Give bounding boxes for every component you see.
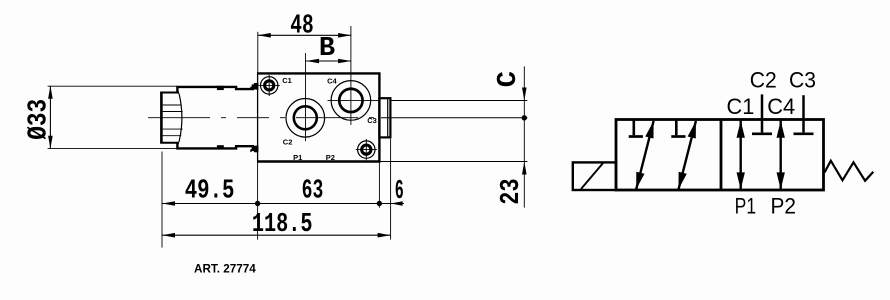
flow arrow 1 (left cell, slanted): [636, 121, 653, 189]
return spring: [825, 161, 874, 181]
extension lines: [48, 26, 528, 248]
main centerline axis: [148, 117, 381, 119]
dimension B: [306, 34, 351, 64]
svg-text:6: 6: [395, 177, 404, 207]
flow arrow C4-P2 (right cell): [777, 121, 785, 190]
coil retaining nub bottom: [250, 145, 258, 152]
svg-text:C1: C1: [282, 76, 292, 85]
svg-text:C3: C3: [789, 67, 816, 92]
dimension 48: [258, 11, 351, 41]
valve body block: [258, 73, 380, 161]
svg-text:C4: C4: [767, 94, 795, 119]
svg-text:P1: P1: [293, 153, 302, 162]
valve envelope: [616, 120, 824, 191]
bolt hole C1: [259, 75, 280, 96]
dimension C / 23: [494, 71, 527, 205]
svg-text:Ø33: Ø33: [25, 99, 55, 140]
svg-text:C1: C1: [727, 94, 755, 119]
svg-text:C: C: [494, 71, 524, 87]
solenoid coil body bottom profile: [177, 142, 257, 150]
svg-text:C2: C2: [283, 137, 293, 146]
svg-text:P2: P2: [326, 153, 335, 162]
coil retaining nub top: [250, 83, 258, 90]
position divider: [720, 120, 723, 191]
svg-text:ART. 27774: ART. 27774: [194, 263, 256, 276]
svg-text:48: 48: [290, 11, 313, 41]
solenoid symbol: [573, 162, 616, 190]
svg-text:P1: P1: [735, 193, 757, 218]
dimension Ø33: [25, 86, 55, 149]
flow arrow 2 (left cell, slanted): [679, 121, 696, 189]
svg-text:P2: P2: [770, 193, 796, 218]
blocked port C3 (right cell): [794, 95, 814, 134]
coil seal bump top: [217, 86, 224, 90]
side cartridge tab: [379, 98, 390, 137]
svg-text:C3: C3: [367, 116, 377, 125]
flow arrow C1-P1 (right cell): [737, 121, 745, 190]
svg-text:23: 23: [497, 178, 527, 204]
svg-text:C2: C2: [750, 67, 777, 92]
svg-text:C4: C4: [327, 77, 337, 86]
solenoid coil cap (nut end): [160, 92, 182, 143]
bolt hole lower right: [356, 139, 377, 160]
svg-text:63: 63: [302, 176, 324, 206]
blocked port C2 (right cell): [752, 94, 772, 133]
port C4: [328, 81, 380, 121]
solenoid coil body top profile: [177, 86, 257, 94]
dimension 49.5 / 63 / 6: [162, 176, 404, 206]
dimension 118.5: [162, 210, 391, 240]
blocked port T1 (left cell): [629, 121, 643, 137]
port C2: [286, 99, 325, 138]
svg-text:49.5: 49.5: [185, 176, 235, 206]
svg-text:118.5: 118.5: [252, 210, 313, 240]
coil cap hatch lines: [163, 105, 183, 136]
coil seal bump bottom: [217, 145, 224, 149]
blocked port T2 (left cell): [671, 121, 685, 137]
svg-text:B: B: [319, 34, 335, 64]
